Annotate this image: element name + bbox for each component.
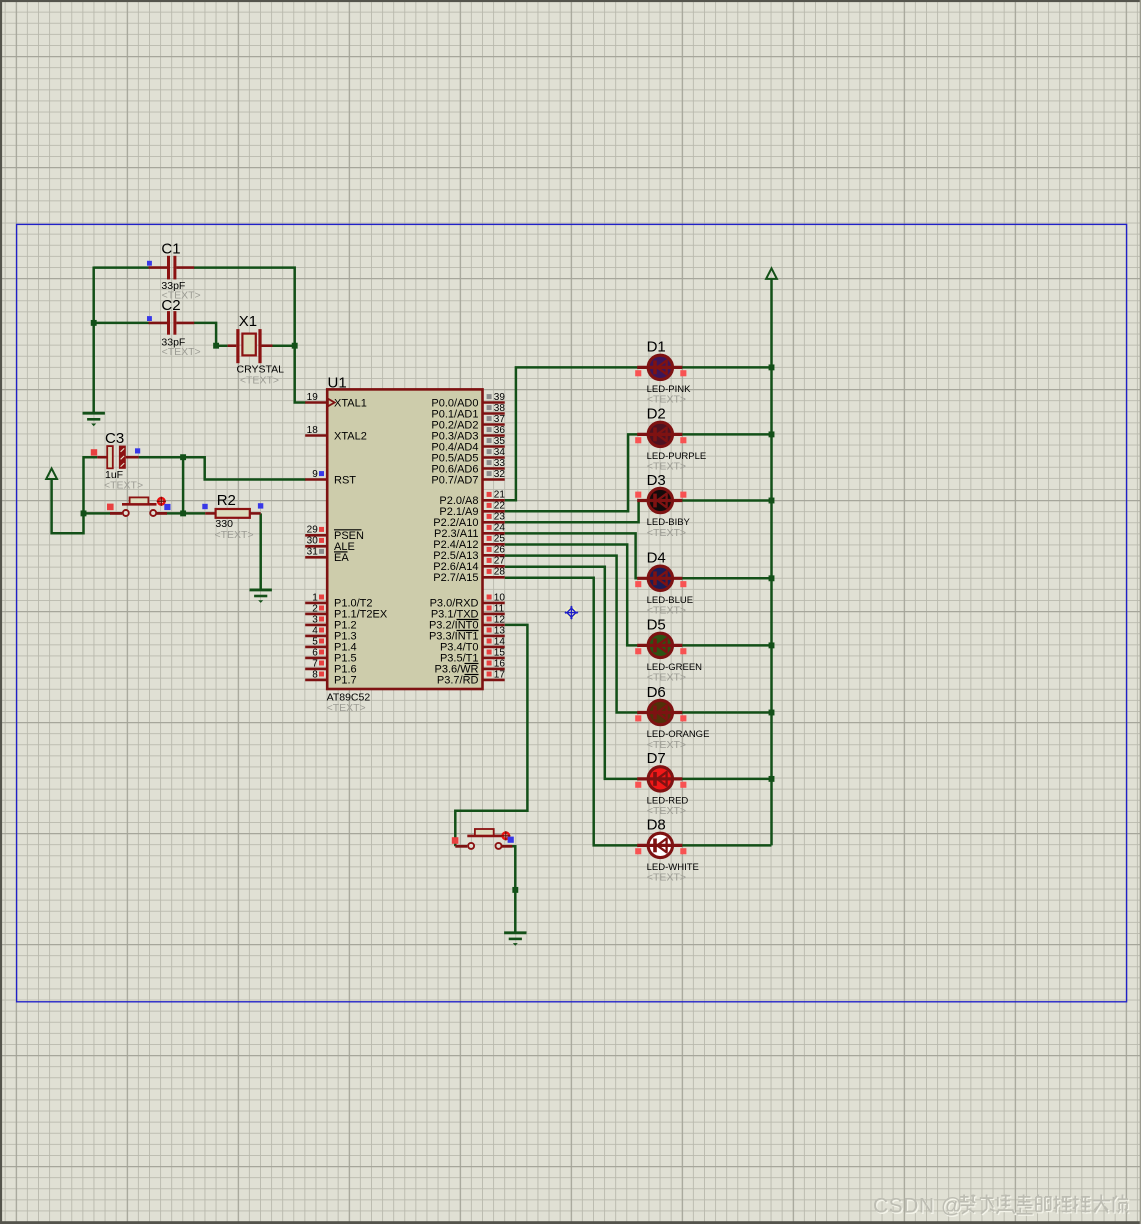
svg-text:P0.7/AD7: P0.7/AD7: [431, 474, 478, 486]
svg-text:<TEXT>: <TEXT>: [215, 529, 254, 541]
svg-text:26: 26: [494, 545, 506, 556]
svg-text:10: 10: [494, 592, 506, 603]
svg-text:33: 33: [494, 458, 506, 469]
svg-text:18: 18: [307, 425, 319, 436]
svg-text:6: 6: [312, 647, 318, 658]
svg-text:28: 28: [494, 567, 506, 578]
svg-text:37: 37: [494, 414, 506, 425]
svg-text:19: 19: [307, 392, 319, 403]
svg-text:17: 17: [494, 669, 506, 680]
svg-text:P1.7: P1.7: [334, 675, 357, 687]
svg-text:3: 3: [312, 614, 318, 625]
svg-text:14: 14: [494, 636, 506, 647]
svg-text:D8: D8: [647, 817, 666, 834]
svg-text:38: 38: [494, 403, 506, 414]
svg-text:32: 32: [494, 469, 506, 480]
svg-text:RST: RST: [334, 474, 356, 486]
svg-text:D3: D3: [647, 472, 666, 489]
svg-text:35: 35: [494, 436, 506, 447]
svg-text:34: 34: [494, 447, 506, 458]
svg-text:4: 4: [312, 625, 318, 636]
svg-text:D1: D1: [647, 339, 666, 356]
svg-text:<TEXT>: <TEXT>: [327, 702, 366, 714]
svg-text:29: 29: [307, 525, 319, 536]
svg-text:C3: C3: [105, 430, 124, 447]
svg-text:<TEXT>: <TEXT>: [647, 605, 686, 617]
svg-text:XTAL1: XTAL1: [334, 397, 367, 409]
svg-text:2: 2: [312, 603, 318, 614]
svg-text:21: 21: [494, 490, 506, 501]
svg-text:<TEXT>: <TEXT>: [647, 394, 686, 406]
svg-text:<TEXT>: <TEXT>: [647, 739, 686, 751]
svg-text:1: 1: [312, 592, 318, 603]
svg-text:<TEXT>: <TEXT>: [647, 527, 686, 539]
svg-text:12: 12: [494, 614, 506, 625]
svg-text:22: 22: [494, 501, 506, 512]
svg-text:30: 30: [307, 536, 319, 547]
svg-text:CSDN @: CSDN @: [873, 1195, 963, 1218]
svg-text:27: 27: [494, 556, 506, 567]
svg-text:U1: U1: [328, 375, 347, 392]
svg-text:P3.7/RD: P3.7/RD: [437, 675, 479, 687]
svg-text:XTAL2: XTAL2: [334, 430, 367, 442]
svg-text:23: 23: [494, 512, 506, 523]
svg-text:5: 5: [312, 636, 318, 647]
svg-text:R2: R2: [217, 492, 236, 509]
svg-text:16: 16: [494, 658, 506, 669]
svg-text:X1: X1: [239, 313, 257, 330]
svg-text:39: 39: [494, 392, 506, 403]
svg-text:36: 36: [494, 425, 506, 436]
svg-text:C2: C2: [161, 297, 180, 314]
svg-text:D6: D6: [647, 684, 666, 701]
svg-text:C1: C1: [161, 241, 180, 258]
svg-text:D5: D5: [647, 617, 666, 634]
svg-text:11: 11: [494, 603, 505, 614]
svg-text:330: 330: [215, 518, 233, 530]
svg-text:D2: D2: [647, 406, 666, 423]
svg-text:7: 7: [312, 658, 318, 669]
svg-text:<TEXT>: <TEXT>: [647, 872, 686, 884]
svg-text:15: 15: [494, 647, 506, 658]
svg-text:25: 25: [494, 534, 506, 545]
svg-text:D7: D7: [647, 750, 666, 767]
svg-text:P2.7/A15: P2.7/A15: [433, 572, 478, 584]
svg-text:31: 31: [307, 547, 319, 558]
svg-text:D4: D4: [647, 550, 666, 567]
svg-text:13: 13: [494, 625, 506, 636]
svg-text:8: 8: [312, 669, 318, 680]
svg-text:<TEXT>: <TEXT>: [240, 374, 279, 386]
svg-text:<TEXT>: <TEXT>: [647, 672, 686, 684]
svg-text:<TEXT>: <TEXT>: [647, 805, 686, 817]
svg-text:EA: EA: [334, 552, 349, 564]
svg-text:24: 24: [494, 523, 506, 534]
svg-text:<TEXT>: <TEXT>: [104, 480, 143, 492]
svg-text:<TEXT>: <TEXT>: [162, 346, 201, 358]
svg-text:9: 9: [312, 469, 318, 480]
